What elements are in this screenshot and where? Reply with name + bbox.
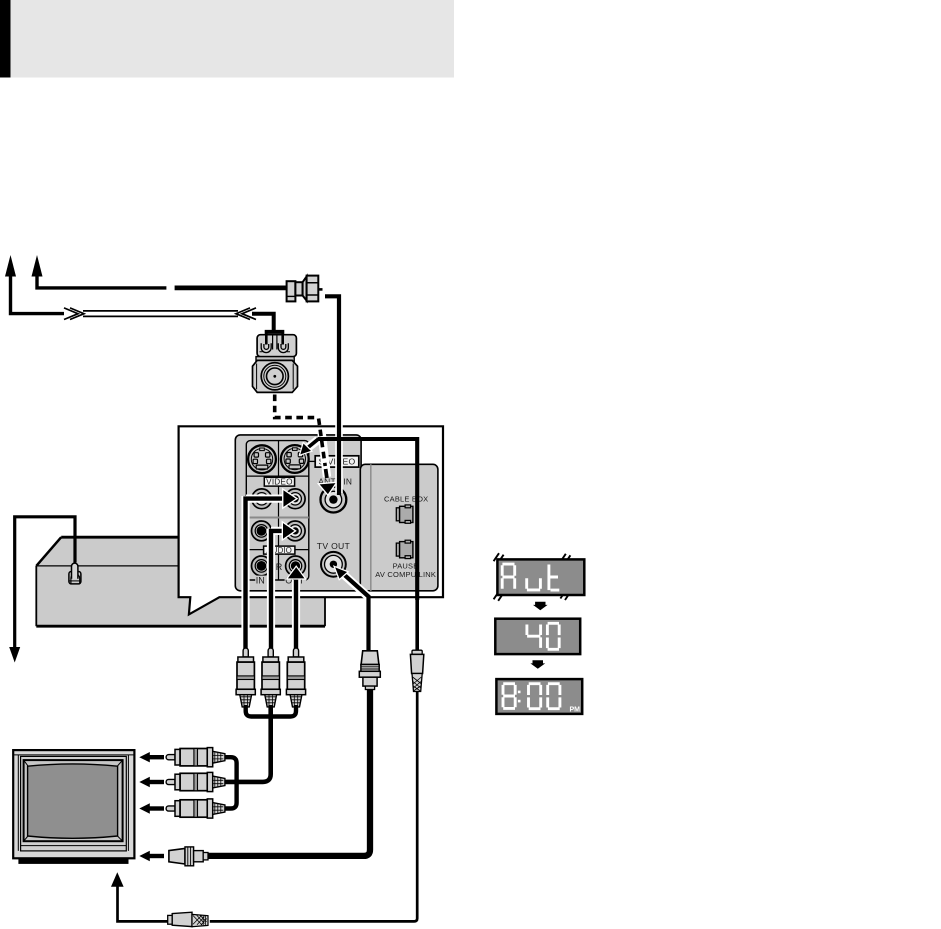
TV base shadow xyxy=(18,858,128,864)
audio L cable xyxy=(271,531,284,651)
dashed route from balun to ANT IN xyxy=(275,395,317,418)
antenna B arrow xyxy=(32,255,43,277)
audio L in jack xyxy=(252,521,272,541)
VCR deck top face xyxy=(36,537,330,566)
TV OUT cable (RF) xyxy=(343,573,369,651)
svg-text:AV COMPU LINK: AV COMPU LINK xyxy=(375,570,436,579)
wire from VCR antenna jack to down-arrow xyxy=(15,517,75,649)
wire from twin-lead to transformer xyxy=(252,314,274,331)
rear panel right section (cable box) xyxy=(360,464,438,591)
s-video cable top run xyxy=(318,439,417,600)
svg-text:PM: PM xyxy=(570,707,581,714)
down arrowhead (VCR wire) xyxy=(9,647,20,663)
rear panel left section xyxy=(235,435,361,591)
video out cable xyxy=(246,499,285,651)
TV screen xyxy=(28,764,118,838)
svg-text:R: R xyxy=(276,562,283,572)
antenna A arrow xyxy=(5,255,16,277)
TV audio L RCA plug xyxy=(166,772,225,791)
audio R in jack xyxy=(252,556,272,576)
antenna jack on VCR top xyxy=(69,572,81,584)
TV OUT jack xyxy=(321,552,346,577)
arrow into TV (TV video RCA plug) xyxy=(139,752,164,762)
twin-lead cable xyxy=(83,311,238,317)
VIDEO label xyxy=(264,477,294,486)
balun lead wires xyxy=(266,332,282,345)
s-video cable lower run xyxy=(415,600,419,651)
header black tab xyxy=(0,0,11,78)
video RCA plug xyxy=(236,648,255,707)
TV lower strip xyxy=(21,845,127,847)
display 1 (Aut) xyxy=(497,559,584,595)
callout speech bubble xyxy=(179,426,443,614)
s-video jack S2 (out) xyxy=(281,445,309,473)
svg-text:IN: IN xyxy=(343,476,352,486)
S-VIDEO label xyxy=(309,460,315,462)
arrow into TV (TV audio L RCA plug) xyxy=(139,777,164,787)
coax wire from F-connector to ANT IN xyxy=(325,296,339,495)
display 3 (8:00 PM) xyxy=(496,679,582,714)
s-video inline connector (vertical) xyxy=(410,650,423,691)
display 1 (Aut) flash marks xyxy=(494,553,504,563)
header grey bar xyxy=(11,0,455,78)
TV audio R RCA plug xyxy=(166,799,225,818)
video in jack xyxy=(252,489,272,509)
display 2 (40) xyxy=(495,619,580,654)
arrow into TV (RF) xyxy=(139,851,164,861)
svg-text:CABLE BOX: CABLE BOX xyxy=(384,494,428,503)
audio L RCA plug xyxy=(261,648,280,707)
TV cabinet xyxy=(13,750,134,858)
step arrow 2 xyxy=(530,660,545,669)
RF cable thick run xyxy=(208,690,370,856)
IN / OUT labels xyxy=(255,576,267,585)
ANT IN jack xyxy=(321,487,347,513)
s-video plug at TV xyxy=(168,912,208,927)
RF push-on connector (vertical) xyxy=(359,651,380,690)
svg-text:VIDEO: VIDEO xyxy=(266,478,292,487)
svg-text:TV OUT: TV OUT xyxy=(317,541,351,551)
dashed arrowhead at ANT IN xyxy=(320,483,336,494)
cable box jack icon xyxy=(396,505,413,523)
audio R cable xyxy=(294,578,298,651)
audio L out jack xyxy=(285,521,305,541)
coaxial cable xyxy=(175,285,287,290)
video out jack xyxy=(285,489,305,509)
jack grid frame xyxy=(246,441,308,580)
wire casings xyxy=(246,412,369,630)
wire from s-video plug to up arrow xyxy=(118,884,168,921)
pause jack icon xyxy=(396,540,413,558)
step arrow 1 xyxy=(533,602,548,611)
antenna A lead wire xyxy=(11,275,65,314)
AV cable bundle to TV xyxy=(246,705,271,717)
twin-lead chevron left xyxy=(64,308,84,320)
svg-text:IN: IN xyxy=(256,576,265,586)
up arrowhead at TV bottom xyxy=(111,872,124,887)
F-type connector P1 xyxy=(287,276,323,302)
AUDIO label xyxy=(264,546,295,554)
s-video arrow into jack S2 xyxy=(306,439,319,450)
twin-lead chevron right xyxy=(236,308,256,320)
VCR deck front face xyxy=(36,566,325,626)
audio R out jack xyxy=(286,556,306,576)
TV inner bezel xyxy=(21,756,127,851)
audio R RCA plug xyxy=(286,648,305,707)
s-video jack S1 (in) xyxy=(248,445,276,473)
antenna B lead wire xyxy=(37,275,166,288)
TV video RCA plug xyxy=(166,748,225,767)
arrow into TV (TV audio R RCA plug) xyxy=(139,803,164,813)
RF plug at TV xyxy=(169,847,208,866)
matching transformer (balun) xyxy=(253,335,298,393)
